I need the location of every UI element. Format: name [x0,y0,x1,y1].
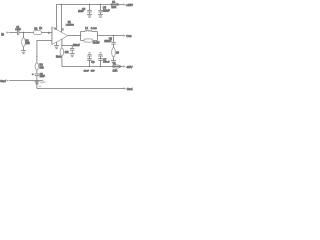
node output pin junction [73,35,74,36]
svg-text:-35V: -35V [126,65,132,69]
capacitor C3 10uF [78,5,92,15]
node Out terminal [123,34,131,38]
capacitor C1 2.2uF [15,27,21,35]
svg-text:Mute: Mute [56,56,62,59]
wire R1 to ground [23,46,25,50]
wire C1 to R2 [19,32,33,34]
capacitor C2 22uF [32,73,45,78]
ground under zobel [111,61,116,64]
svg-text:L1: L1 [85,27,88,30]
svg-text:+35V: +35V [126,3,133,7]
svg-text:560: 560 [40,66,45,69]
wire R3 to negative rail [61,56,63,67]
ground under R1 [21,51,26,54]
ground under op-amp pin [54,42,59,49]
wire C2 to gnd line [36,76,38,81]
wire down to output ground bus [36,81,38,89]
wire L/R rejoin right [97,32,99,41]
resistor R8 10 zobel [112,48,120,57]
node V- terminal [123,65,132,69]
wire R8 to ground [113,57,115,61]
ground chassis mark [43,81,46,83]
capacitor C6 10uF [87,56,95,66]
svg-text:U1: U1 [68,22,72,24]
wire R4 to C2 [36,70,38,74]
node rail pin junction [61,4,62,5]
resistor R3 10k mute [56,48,69,59]
node bus junction [36,80,37,81]
wire ground bus [9,80,43,82]
node feedback junction [36,56,37,57]
capacitor C9 100nF [98,56,110,66]
svg-text:1W: 1W [96,43,100,45]
resistor R7 10 parallel [81,39,101,45]
fuse F2 [112,63,120,72]
resistor R4 560 [35,63,44,70]
ground above C9 [98,53,103,56]
svg-text:1k: 1k [39,28,42,30]
positive rail wire [57,5,124,30]
svg-text:10k: 10k [65,51,70,54]
wire to output terminal [98,35,124,37]
node V+ terminal [123,3,133,7]
node Gnd terminal [0,79,9,83]
svg-text:Out: Out [126,34,131,38]
negative rail wire [62,66,123,68]
wire R2 to op-amp non-inverting input [42,32,52,34]
svg-text:7: 7 [55,29,56,31]
wire inverting input left [37,40,52,42]
capacitor C7 100nF mute [70,44,80,54]
ground under C7 [70,54,75,57]
svg-text:22uF: 22uF [40,76,46,78]
node split [80,35,81,36]
svg-text:63V: 63V [91,70,95,72]
resistor R1 22k [22,38,31,47]
svg-text:2.5A: 2.5A [113,69,118,72]
svg-text:10uF: 10uF [78,10,84,13]
svg-text:Gnd: Gnd [0,79,6,83]
capacitor C5 100nF [98,5,110,15]
svg-text:0.7uH: 0.7uH [91,28,97,30]
node Zobel junction [113,35,114,36]
svg-text:2.5A: 2.5A [111,6,116,9]
node rail junction C6 [89,66,90,67]
svg-text:100nF: 100nF [73,44,80,47]
svg-text:In: In [1,32,4,36]
wire L/R split left [80,32,82,41]
node rail junction C9 [100,66,101,67]
svg-text:C6: C6 [91,61,95,64]
svg-text:100nF: 100nF [103,62,110,64]
node junction input [23,32,24,33]
svg-text:10: 10 [116,52,119,55]
inductor L1 [81,27,98,31]
resistor R2 1k [34,28,43,34]
svg-text:+: + [32,73,34,76]
node Gnd output terminal [124,87,133,91]
svg-text:100nF: 100nF [103,9,110,12]
text bus label smudge [40,82,44,84]
op-amp U1 LM3886 [52,22,75,45]
wire mute stub to C7 [62,45,72,47]
node rail junction C3 [89,4,90,5]
wire In to C1 [9,32,17,34]
wire inverting input down [36,41,38,64]
svg-text:F1: F1 [112,1,115,4]
ground above C6 [87,53,92,56]
ground under C3 [87,14,92,17]
svg-text:22k: 22k [26,42,31,45]
fuse F1 [111,1,119,9]
ground at bus junction [35,82,40,85]
wire junction down to R1 [23,33,25,39]
node mute junction [61,45,62,46]
svg-text:2.2uF: 2.2uF [15,29,21,31]
node In terminal [1,31,9,36]
ground under C5 [98,14,103,17]
svg-text:Gnd: Gnd [127,87,133,91]
svg-text:1: 1 [62,29,63,31]
wire V+ pin 2 [61,5,63,33]
svg-text:LM3886: LM3886 [66,25,75,27]
svg-text:100nF: 100nF [104,40,111,43]
wire mute pin down [61,39,63,48]
capacitor C8 100nF zobel [104,36,115,48]
svg-text:R2: R2 [34,28,38,30]
svg-text:10uF: 10uF [84,70,90,72]
wire op-amp output [68,35,81,37]
node rail junction C5 [100,4,101,5]
wire output ground bus [37,88,124,90]
